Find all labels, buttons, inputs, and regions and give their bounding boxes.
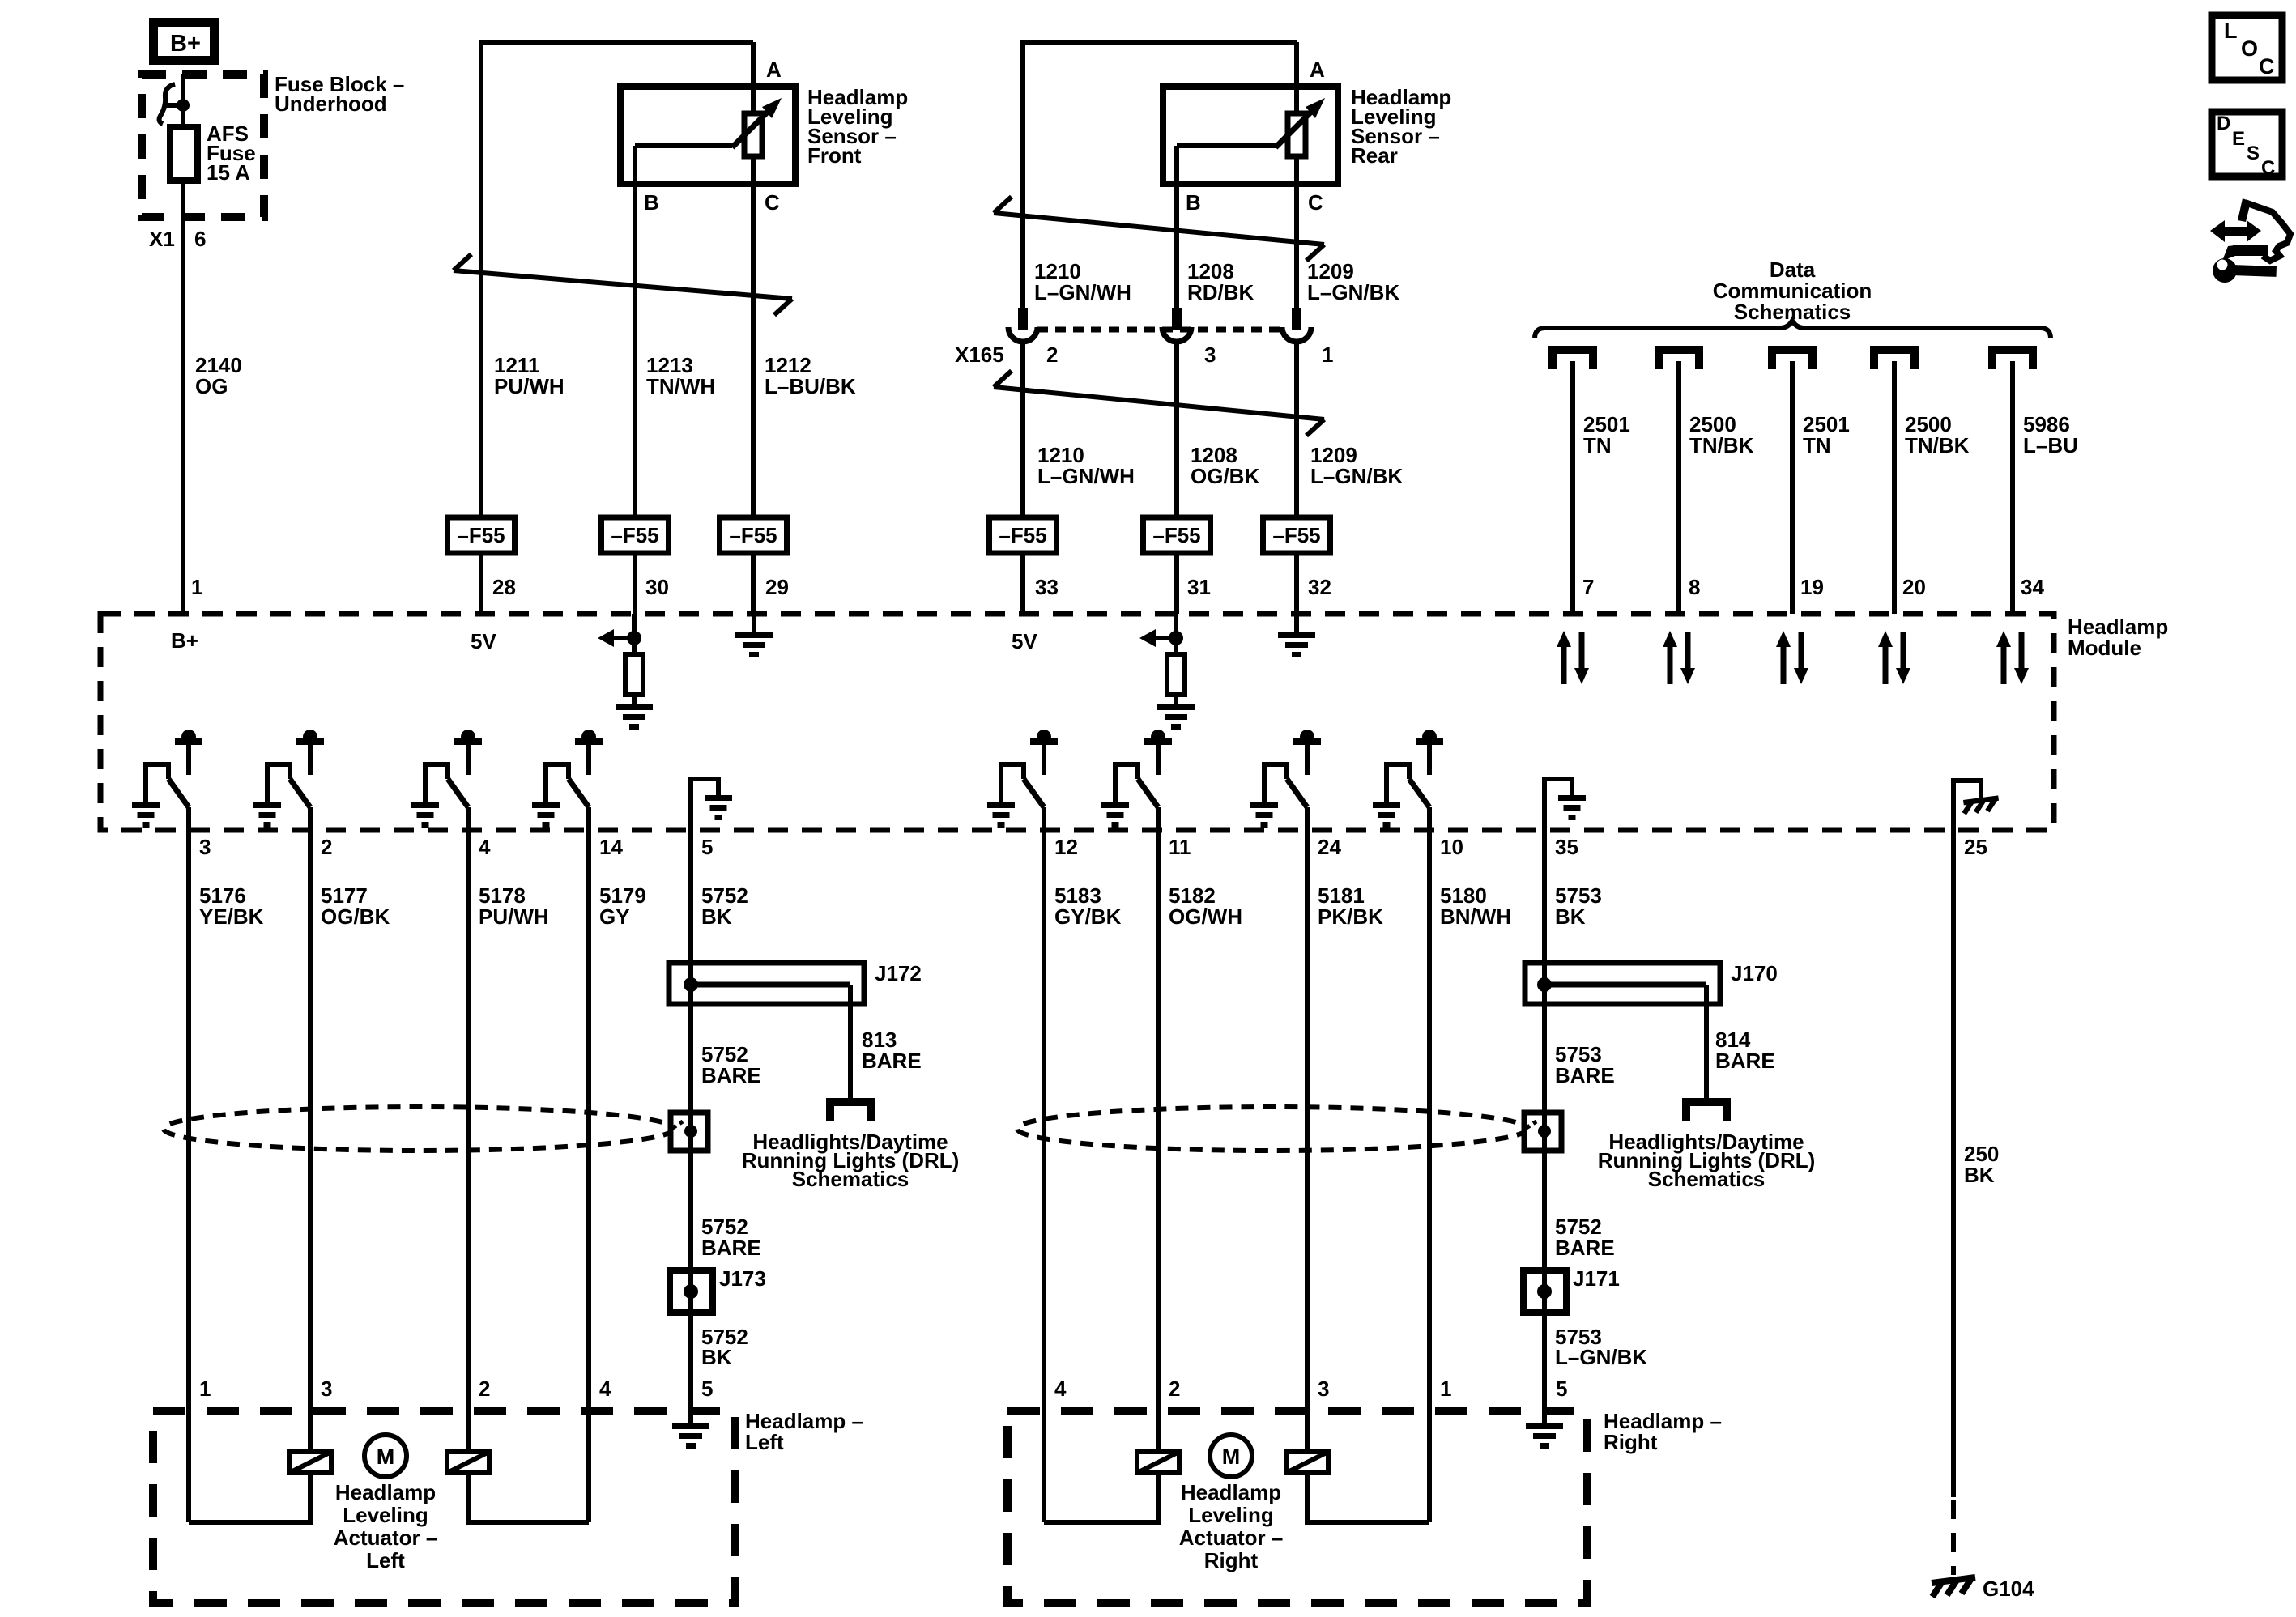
- svg-text:5: 5: [701, 835, 713, 859]
- svg-text:2: 2: [1046, 343, 1058, 367]
- crossing option arrow below X165: [994, 371, 1324, 436]
- off-page connector for data wire 2500 TN/BK: [1874, 350, 1915, 369]
- svg-text:L–GN/BK: L–GN/BK: [1310, 464, 1403, 488]
- svg-text:Schematics: Schematics: [1734, 300, 1851, 324]
- wire label 1209 L-GN/BK (above X165): [1307, 259, 1399, 304]
- inline connector -F55 on wire 1213: [602, 517, 669, 553]
- wire label 2501 TN: [1803, 412, 1850, 457]
- svg-text:32: 32: [1308, 575, 1331, 599]
- svg-text:14: 14: [599, 835, 623, 859]
- svg-text:Actuator –: Actuator –: [1179, 1526, 1284, 1550]
- svg-text:L–GN/WH: L–GN/WH: [1037, 464, 1135, 488]
- svg-text:C: C: [2261, 157, 2275, 179]
- junction dot at switch output: [177, 99, 190, 112]
- svg-text:4: 4: [599, 1377, 611, 1401]
- wire label 5752 BARE (below shield, right): [1555, 1215, 1615, 1260]
- shield drain pass-through box (right): [1524, 1113, 1561, 1151]
- off-page connector for data wire 5986 L–BU: [1992, 350, 2033, 369]
- wire label 1208 RD/BK: [1187, 259, 1254, 304]
- svg-text:–F55: –F55: [999, 523, 1046, 547]
- fuse block - underhood (dashed box): [142, 74, 264, 217]
- wire label 5752 BARE (above shield): [701, 1042, 761, 1087]
- LOC reference icon box: [2212, 15, 2282, 80]
- svg-text:3: 3: [1318, 1377, 1329, 1401]
- wire labels 5753 BK: [1555, 883, 1602, 929]
- svg-text:3: 3: [321, 1377, 332, 1401]
- svg-text:OG: OG: [195, 374, 228, 398]
- svg-text:L: L: [2224, 19, 2238, 43]
- wire 5752 BK pin5 to headlamp left pin 5: [688, 830, 693, 1411]
- svg-text:L–GN/BK: L–GN/BK: [1307, 280, 1399, 304]
- actuator feedback element (wire 5178): [447, 1452, 489, 1473]
- wire loop from module pin 28 up and over to sensor pin A (front): [481, 42, 753, 614]
- svg-text:C: C: [765, 190, 780, 215]
- motor M - headlamp leveling actuator left: [364, 1435, 407, 1477]
- svg-text:11: 11: [1169, 835, 1191, 859]
- service/repair icon (double arrow, panel outline, wrench): [2210, 198, 2290, 283]
- svg-text:34: 34: [2021, 575, 2044, 599]
- label: Headlamp - Left: [745, 1409, 863, 1454]
- svg-text:–F55: –F55: [1152, 523, 1200, 547]
- svg-text:Headlamp: Headlamp: [335, 1480, 436, 1504]
- data wire 2500 TN/BK to module pin 20: [1892, 361, 1897, 614]
- wire A/C through rear sensor (circuit 1209): [1294, 42, 1299, 309]
- svg-text:BK: BK: [1555, 904, 1586, 929]
- svg-text:J170: J170: [1731, 961, 1778, 985]
- wire labels 5178 PU/WH: [479, 883, 549, 929]
- wire label 1211 PU/WH: [494, 353, 564, 398]
- output driver switch at module pin 12: [987, 730, 1058, 830]
- svg-text:24: 24: [1318, 835, 1341, 859]
- svg-text:BARE: BARE: [1555, 1236, 1615, 1260]
- label: Headlamp Module: [2068, 615, 2168, 660]
- svg-text:BARE: BARE: [1555, 1063, 1615, 1087]
- svg-text:TN/BK: TN/BK: [1905, 433, 1970, 457]
- ground at pin 29: [735, 614, 773, 657]
- actuator bottom link wires (left): [189, 1473, 589, 1522]
- motor M - headlamp leveling actuator right: [1210, 1435, 1252, 1477]
- wire label 1210 L-GN/WH (below X165): [1037, 443, 1135, 488]
- splice J171: [1523, 1151, 1620, 1411]
- off-page connector for data wire 2500 TN/BK: [1659, 350, 1699, 369]
- svg-text:4: 4: [479, 835, 491, 859]
- svg-text:BK: BK: [701, 1345, 732, 1369]
- wire 5179 GY pin14 to headlamp left pin 4: [586, 830, 591, 1522]
- ground at pin 32: [1278, 614, 1315, 657]
- svg-text:J172: J172: [875, 961, 922, 985]
- label: Headlights/Daytime Running Lights (DRL) Schematics (left): [742, 1130, 960, 1191]
- splice J173: [670, 1151, 766, 1411]
- ground inside headlamp left (pin 5): [672, 1411, 709, 1449]
- headlamp - right boundary (dashed): [1007, 1411, 1587, 1603]
- bidirectional data arrows at pin 20: [1878, 631, 1910, 684]
- headlamp right pin numbers: [1054, 1377, 1567, 1401]
- svg-text:PK/BK: PK/BK: [1318, 904, 1383, 929]
- svg-text:15 A: 15 A: [207, 160, 250, 185]
- svg-text:G104: G104: [1983, 1577, 2034, 1601]
- svg-text:Actuator –: Actuator –: [334, 1526, 438, 1550]
- svg-text:Module: Module: [2068, 636, 2141, 660]
- svg-text:B+: B+: [170, 31, 201, 57]
- headlamp module boundary (dashed): [100, 614, 2054, 830]
- data wire 2501 TN to module pin 19: [1790, 361, 1795, 614]
- svg-text:BK: BK: [1964, 1163, 1995, 1187]
- switch element inside fuse block: [160, 84, 183, 124]
- svg-text:Underhood: Underhood: [275, 91, 387, 116]
- svg-text:BARE: BARE: [701, 1236, 761, 1260]
- output driver switch at module pin 11: [1101, 730, 1172, 830]
- chassis ground at module pin 25: [1953, 781, 1999, 830]
- ground inside headlamp right (pin 5): [1526, 1411, 1563, 1449]
- wire label 2500 TN/BK: [1689, 412, 1754, 457]
- svg-text:3: 3: [199, 835, 211, 859]
- internal reference: arrow + pull-down resistor + ground at pin 30: [598, 614, 653, 730]
- output driver switch at module pin 24: [1250, 730, 1321, 830]
- headlamp leveling sensor - rear (potentiometer): [1163, 85, 1451, 184]
- off-page connector to DRL schematics (813): [830, 1102, 871, 1121]
- headlamp leveling sensor - front (potentiometer): [620, 85, 908, 184]
- wire label 813 BARE: [862, 1028, 922, 1073]
- shield drain pass-through box (left): [671, 1113, 708, 1151]
- wires below X165 to module pins 33/31/32: [1020, 343, 1025, 614]
- label: Data Communication Schematics: [1713, 257, 1872, 324]
- svg-text:RD/BK: RD/BK: [1187, 280, 1254, 304]
- svg-text:J173: J173: [719, 1266, 766, 1291]
- pin letters A B C (rear sensor): [1186, 57, 1325, 215]
- wire 5178 PU/WH pin4 to headlamp left pin 2: [466, 830, 471, 1452]
- label: Headlights/Daytime Running Lights (DRL) Schematics (right): [1598, 1130, 1816, 1191]
- label: Fuse Block - Underhood: [275, 72, 404, 116]
- output driver switch at module pin 3: [132, 730, 202, 830]
- svg-text:X165: X165: [955, 343, 1004, 367]
- svg-text:5V: 5V: [471, 629, 496, 653]
- svg-text:O: O: [2241, 36, 2258, 61]
- svg-text:J171: J171: [1573, 1266, 1620, 1291]
- wire label 1208 OG/BK: [1191, 443, 1259, 488]
- pin letters A B C (front sensor): [644, 57, 782, 215]
- wire label 5753 L-GN/BK: [1555, 1325, 1647, 1369]
- svg-text:X1: X1: [149, 227, 175, 251]
- svg-text:L–BU: L–BU: [2023, 433, 2078, 457]
- fuse AFS 15 A: [170, 121, 256, 185]
- inline connector -F55 on wire 1212: [720, 517, 787, 553]
- internal ground return at pin 5: [691, 779, 732, 830]
- wire 250 BK from module pin 25: [1951, 830, 1956, 1497]
- svg-text:1: 1: [191, 575, 202, 599]
- wire 5176 YE/BK pin3 to headlamp left pin 1: [186, 830, 191, 1522]
- actuator feedback element (wire 5181): [1286, 1452, 1328, 1473]
- splice J170: [1525, 961, 1778, 1103]
- svg-text:OG/BK: OG/BK: [321, 904, 390, 929]
- bidirectional data arrows at pin 7: [1557, 631, 1589, 684]
- wire labels 5182 OG/WH: [1169, 883, 1242, 929]
- wire 5180 BN/WH pin10 to headlamp right pin 1: [1427, 830, 1432, 1522]
- off-page connector for data wire 2501 TN: [1553, 350, 1593, 369]
- wire labels 5179 GY: [599, 883, 646, 929]
- svg-text:A: A: [766, 57, 782, 82]
- actuator feedback element (wire 5182): [1137, 1452, 1179, 1473]
- off-page connector for data wire 2501 TN: [1772, 350, 1813, 369]
- connector X165 cavity 2: [1008, 308, 1037, 342]
- shield ellipse (left harness): [164, 1107, 674, 1151]
- svg-text:B+: B+: [171, 628, 198, 653]
- wire label 1210 L-GN/WH (above X165): [1034, 259, 1131, 304]
- svg-text:4: 4: [1054, 1377, 1067, 1401]
- svg-text:2: 2: [1169, 1377, 1180, 1401]
- wire from B+ through fuse to module pin 1 (circuit 2140 OG): [181, 74, 185, 614]
- svg-text:Left: Left: [366, 1548, 405, 1572]
- inline connector -F55 on wire 1211: [448, 517, 515, 553]
- svg-text:OG/WH: OG/WH: [1169, 904, 1242, 929]
- svg-text:Left: Left: [745, 1430, 784, 1454]
- svg-text:C: C: [1308, 190, 1323, 215]
- svg-text:Leveling: Leveling: [1188, 1503, 1273, 1527]
- node B+ battery feed symbol: [154, 23, 215, 61]
- shield ellipse (right harness): [1017, 1107, 1527, 1151]
- internal reference: arrow + pull-down resistor + ground at pin 31: [1139, 614, 1195, 730]
- svg-text:YE/BK: YE/BK: [199, 904, 264, 929]
- output driver switch at module pin 10: [1373, 730, 1443, 830]
- actuator bottom link wires (right): [1044, 1473, 1429, 1522]
- svg-text:3: 3: [1204, 343, 1216, 367]
- wire 5177 OG/BK pin2 to headlamp left pin 3: [308, 830, 313, 1452]
- svg-text:Right: Right: [1604, 1430, 1658, 1454]
- output driver switch at module pin 2: [253, 730, 324, 830]
- svg-text:12: 12: [1054, 835, 1078, 859]
- data wire 2501 TN to module pin 7: [1570, 361, 1575, 614]
- label X165 and cavity numbers: [955, 343, 1333, 367]
- wire B of rear sensor (circuit 1208): [1174, 146, 1179, 309]
- svg-text:L–GN/WH: L–GN/WH: [1034, 280, 1131, 304]
- svg-text:S: S: [2247, 143, 2260, 164]
- connector X165 cavity 3: [1162, 308, 1191, 342]
- svg-text:Schematics: Schematics: [792, 1167, 909, 1191]
- wire 5181 PK/BK pin24 to headlamp right pin 3: [1305, 830, 1310, 1452]
- wire labels 5177 OG/BK: [321, 883, 390, 929]
- svg-text:25: 25: [1964, 835, 1987, 859]
- wire label 5753 BARE (above shield): [1555, 1042, 1615, 1087]
- inline connector -F55 on wire 1208: [1144, 517, 1211, 553]
- svg-text:7: 7: [1582, 575, 1594, 599]
- crossing option arrow above X165: [994, 197, 1324, 261]
- output driver switch at module pin 4: [411, 730, 482, 830]
- svg-text:M: M: [1222, 1445, 1241, 1469]
- wire labels 5181 PK/BK: [1318, 883, 1383, 929]
- module top pin numbers: [191, 575, 2044, 599]
- module bottom pin numbers: [199, 835, 1987, 859]
- dashed wire tail to G104: [1951, 1500, 1956, 1575]
- svg-text:–F55: –F55: [457, 523, 505, 547]
- svg-text:35: 35: [1555, 835, 1578, 859]
- headlamp left pin numbers: [199, 1377, 713, 1401]
- svg-text:Right: Right: [1204, 1548, 1259, 1572]
- svg-text:5V: 5V: [1012, 629, 1037, 653]
- svg-text:6: 6: [194, 227, 206, 251]
- label: Headlamp Leveling Actuator - Left: [334, 1480, 438, 1572]
- svg-text:30: 30: [645, 575, 669, 599]
- svg-text:29: 29: [765, 575, 789, 599]
- connector X165 cavity 1: [1282, 308, 1311, 342]
- wire loop from module pin 33 up and over to sensor pin A (rear): [1023, 42, 1297, 309]
- svg-text:BARE: BARE: [701, 1063, 761, 1087]
- svg-text:33: 33: [1035, 575, 1059, 599]
- svg-text:B: B: [644, 190, 659, 215]
- svg-text:2: 2: [479, 1377, 490, 1401]
- wire 5183 GY/BK pin12 to headlamp right pin 4: [1042, 830, 1046, 1522]
- wire 5182 OG/WH pin11 to headlamp right pin 2: [1156, 830, 1161, 1452]
- svg-text:5: 5: [701, 1377, 713, 1401]
- inline connector -F55 on wire 1210: [990, 517, 1057, 553]
- svg-text:BARE: BARE: [1715, 1049, 1775, 1073]
- wire B of front sensor (circuit 1213): [633, 146, 637, 614]
- svg-text:TN/BK: TN/BK: [1689, 433, 1754, 457]
- wire label 2500 TN/BK: [1905, 412, 1970, 457]
- svg-text:E: E: [2232, 128, 2245, 150]
- svg-text:8: 8: [1689, 575, 1700, 599]
- svg-text:B: B: [1186, 190, 1201, 215]
- svg-text:PU/WH: PU/WH: [494, 374, 564, 398]
- inline connector -F55 on wire 1209: [1263, 517, 1331, 553]
- wire label 1209 L-GN/BK (below X165): [1310, 443, 1403, 488]
- wire label 5752 BARE (below shield): [701, 1215, 761, 1260]
- svg-text:GY/BK: GY/BK: [1054, 904, 1122, 929]
- svg-text:20: 20: [1902, 575, 1926, 599]
- wire labels 5752 BK: [701, 883, 748, 929]
- svg-text:Headlamp: Headlamp: [1181, 1480, 1281, 1504]
- svg-text:28: 28: [492, 575, 516, 599]
- wire labels 5180 BN/WH: [1440, 883, 1511, 929]
- wire labels 5183 GY/BK: [1054, 883, 1122, 929]
- svg-text:19: 19: [1800, 575, 1824, 599]
- wire label 250 BK: [1964, 1142, 1999, 1187]
- svg-text:1: 1: [199, 1377, 211, 1401]
- svg-text:TN: TN: [1803, 433, 1831, 457]
- label: Headlamp - Right: [1604, 1409, 1722, 1454]
- chassis ground G104: [1932, 1577, 1975, 1597]
- wire 5753 BK pin35 to headlamp right pin 5: [1542, 830, 1547, 1411]
- svg-text:Schematics: Schematics: [1648, 1167, 1766, 1191]
- svg-text:M: M: [377, 1445, 395, 1469]
- svg-text:BN/WH: BN/WH: [1440, 904, 1511, 929]
- svg-text:Rear: Rear: [1351, 143, 1398, 168]
- data wire 2500 TN/BK to module pin 8: [1676, 361, 1681, 614]
- wire label 5986 L–BU: [2023, 412, 2078, 457]
- brace: data communication schematics group: [1535, 321, 2051, 338]
- svg-text:5: 5: [1556, 1377, 1567, 1401]
- connector X165 dotted gang line: [1037, 327, 1283, 333]
- svg-text:–F55: –F55: [1272, 523, 1320, 547]
- label: Headlamp Leveling Actuator - Right: [1179, 1480, 1284, 1572]
- svg-text:10: 10: [1440, 835, 1463, 859]
- svg-text:L–BU/BK: L–BU/BK: [765, 374, 856, 398]
- svg-text:TN/WH: TN/WH: [646, 374, 715, 398]
- actuator feedback element (wire 5177): [289, 1452, 331, 1473]
- DESC reference icon box: [2212, 112, 2282, 179]
- svg-text:31: 31: [1187, 575, 1211, 599]
- bidirectional data arrows at pin 8: [1663, 631, 1695, 684]
- wire label 1213 TN/WH: [646, 353, 715, 398]
- internal ground return at pin 35: [1544, 779, 1586, 830]
- bidirectional data arrows at pin 34: [1996, 631, 2029, 684]
- svg-text:BK: BK: [701, 904, 732, 929]
- connector X1 pin 6 labels: [149, 227, 206, 251]
- headlamp - left boundary (dashed): [153, 1411, 735, 1603]
- svg-text:–F55: –F55: [729, 523, 777, 547]
- off-page connector to DRL schematics (814): [1686, 1102, 1727, 1121]
- wire A/C through front sensor (circuit 1212): [751, 42, 756, 614]
- output driver switch at module pin 14: [532, 730, 603, 830]
- wire label 2140 OG: [195, 353, 242, 398]
- svg-text:Front: Front: [807, 143, 862, 168]
- crossing option arrow (front sensor harness): [454, 254, 792, 315]
- svg-text:BARE: BARE: [862, 1049, 922, 1073]
- wire label 1212 L-BU/BK: [765, 353, 856, 398]
- wire label 2501 TN: [1583, 412, 1630, 457]
- svg-text:L–GN/BK: L–GN/BK: [1555, 1345, 1647, 1369]
- svg-text:PU/WH: PU/WH: [479, 904, 549, 929]
- svg-text:D: D: [2217, 113, 2230, 134]
- svg-text:OG/BK: OG/BK: [1191, 464, 1259, 488]
- svg-text:2: 2: [321, 835, 332, 859]
- data wire 5986 L–BU to module pin 34: [2010, 361, 2015, 614]
- svg-text:–F55: –F55: [611, 523, 658, 547]
- svg-text:GY: GY: [599, 904, 630, 929]
- svg-text:Leveling: Leveling: [343, 1503, 428, 1527]
- svg-text:A: A: [1310, 57, 1325, 82]
- wire label 5752 BK (below J173): [701, 1325, 748, 1369]
- splice J172: [669, 961, 922, 1103]
- wire labels 5176 YE/BK: [199, 883, 264, 929]
- svg-text:TN: TN: [1583, 433, 1612, 457]
- svg-text:1: 1: [1440, 1377, 1451, 1401]
- wire label 814 BARE: [1715, 1028, 1775, 1073]
- bidirectional data arrows at pin 19: [1776, 631, 1808, 684]
- svg-text:C: C: [2259, 54, 2275, 79]
- svg-text:1: 1: [1322, 343, 1333, 367]
